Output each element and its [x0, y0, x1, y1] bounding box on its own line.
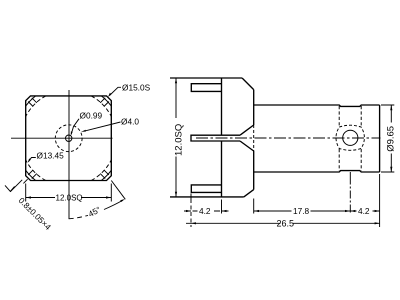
svg-text:4.2: 4.2	[358, 206, 370, 216]
svg-text:Ø13.45: Ø13.45	[37, 150, 65, 160]
svg-text:Ø0.99: Ø0.99	[80, 111, 103, 121]
flange square outline with chamfered corners	[26, 96, 112, 181]
svg-text:Ø4.0: Ø4.0	[121, 117, 139, 127]
svg-text:17.8: 17.8	[293, 206, 310, 216]
hole centerline tick + extension down	[349, 172, 351, 177]
flange bottom edge + extension	[170, 196, 244, 198]
leader O4.0	[81, 122, 121, 132]
horizontal centerline	[11, 137, 113, 139]
vertical centerline	[68, 90, 70, 219]
dimension 12.0SQ (side, left)	[175, 78, 177, 197]
hole dashed circle	[336, 125, 364, 150]
insulator cone	[240, 125, 254, 151]
center hole circle O0.99	[66, 135, 72, 141]
corner chamfer hatching	[28, 98, 109, 179]
outer corner arcs (O15.0S circle)	[26, 96, 112, 181]
inner dashed corner arcs (O13.45 circle)	[26, 96, 112, 181]
body top edge with hole notch	[254, 105, 380, 106]
dimension 4.2 (right)	[350, 210, 379, 212]
flange bottom-right chamfer	[244, 190, 254, 197]
svg-text:0.8±0.05×4: 0.8±0.05×4	[17, 195, 54, 232]
bottom pin	[191, 185, 221, 193]
45deg angle dimension	[69, 181, 126, 219]
dashed circle O4.0	[55, 125, 82, 152]
leader O15.0S	[108, 87, 121, 97]
dimension O9.65 (body dia)	[381, 105, 394, 172]
flange left edge (interrupted by middle pin)	[221, 78, 223, 197]
svg-text:26.5: 26.5	[277, 219, 295, 229]
dimension 26.5 (overall)	[186, 174, 380, 227]
chamfer dimension 0.8x45 (bottom-left)	[5, 179, 28, 192]
middle pin (center contact)	[191, 135, 240, 141]
flange top-right chamfer	[242, 78, 254, 90]
dimension 12.0SQ (front, bottom)	[26, 184, 112, 202]
hole hidden edge right	[360, 106, 362, 171]
leader O13.45	[28, 158, 36, 163]
leader O0.99	[71, 119, 79, 136]
svg-text:4.2: 4.2	[199, 206, 211, 216]
body right edge	[379, 105, 381, 172]
svg-text:45°: 45°	[87, 204, 103, 219]
flange top edge + extension	[170, 77, 242, 79]
svg-text:12.0SQ: 12.0SQ	[174, 124, 185, 156]
hole hidden edge left	[338, 106, 340, 171]
svg-text:12.0SQ: 12.0SQ	[56, 193, 83, 202]
dimension 17.8	[254, 199, 351, 214]
svg-text:Ø9.65: Ø9.65	[386, 126, 397, 152]
flange right edge dashed across cone	[253, 125, 255, 151]
main centerline (dash-dot)	[196, 137, 381, 139]
flange right edge upper solid	[253, 90, 255, 125]
top pin	[191, 84, 221, 92]
flange right edge lower solid	[253, 151, 255, 190]
svg-text:Ø15.0S: Ø15.0S	[122, 82, 151, 92]
body bottom edge with hole notch	[254, 171, 380, 172]
hole circle	[343, 130, 358, 145]
dimension 4.2 (left, pin length)	[184, 194, 229, 228]
